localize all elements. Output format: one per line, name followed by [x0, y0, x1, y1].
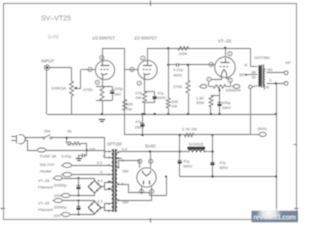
svg-text:0: 0	[121, 182, 123, 186]
svg-text:250V: 250V	[135, 124, 144, 129]
svg-text:6.3: 6.3	[98, 200, 103, 204]
svg-text:160V: 160V	[157, 95, 166, 100]
svg-text:100: 100	[89, 148, 95, 152]
svg-text:Filament: Filament	[38, 184, 54, 189]
svg-text:SCH515: SCH515	[189, 142, 204, 147]
svg-text:470Ω: 470Ω	[83, 87, 92, 92]
svg-text:0.22μ: 0.22μ	[173, 67, 183, 72]
svg-text:0: 0	[103, 154, 105, 158]
svg-text:SW: SW	[44, 129, 51, 134]
svg-text:1/2 6SN7GT: 1/2 6SN7GT	[134, 36, 157, 41]
svg-text:6.3: 6.3	[97, 161, 102, 165]
svg-text:100K: 100K	[178, 51, 187, 56]
svg-text:GOT950: GOT950	[254, 55, 270, 60]
svg-text:SV–VT25: SV–VT25	[41, 16, 71, 23]
svg-text:1/2 6SN7GT: 1/2 6SN7GT	[92, 36, 115, 41]
svg-text:(Rch): (Rch)	[258, 127, 268, 131]
svg-text:R: R	[245, 64, 248, 68]
svg-text:10000μ: 10000μ	[54, 183, 67, 188]
svg-text:VT–25: VT–25	[218, 38, 232, 43]
svg-text:1W: 1W	[171, 104, 177, 109]
svg-text:270K: 270K	[173, 84, 182, 89]
svg-text:0: 0	[100, 171, 102, 175]
svg-text:500V: 500V	[183, 163, 192, 168]
svg-text:160V: 160V	[222, 105, 231, 110]
svg-text:6.3: 6.3	[98, 179, 103, 183]
svg-text:20W: 20W	[196, 100, 204, 105]
svg-text:400V: 400V	[173, 73, 182, 78]
svg-text:0: 0	[100, 186, 102, 190]
svg-text:0: 0	[269, 78, 271, 82]
svg-text:500V: 500V	[219, 165, 228, 170]
svg-text:1W: 1W	[126, 106, 132, 111]
svg-text:SPT150: SPT150	[107, 142, 123, 147]
svg-text:0: 0	[100, 207, 102, 211]
svg-text:(Lch): (Lch)	[48, 34, 59, 39]
svg-text:16V: 16V	[114, 91, 121, 96]
svg-text:5U4G: 5U4G	[145, 143, 156, 148]
svg-text:10V: 10V	[54, 213, 61, 218]
svg-text:Y 8Ω: Y 8Ω	[264, 68, 273, 72]
svg-text:47μ: 47μ	[135, 119, 142, 124]
svg-text:2.7K 2W: 2.7K 2W	[182, 126, 197, 131]
svg-text:INPUT: INPUT	[41, 59, 54, 64]
svg-text:FUSE 3A: FUSE 3A	[40, 153, 57, 158]
svg-text:NL: NL	[67, 129, 73, 134]
svg-text:VT–25: VT–25	[38, 178, 49, 183]
svg-text:review33.com: review33.com	[253, 215, 295, 222]
svg-text:VT–25: VT–25	[38, 201, 49, 206]
svg-text:Filament: Filament	[38, 207, 54, 212]
svg-text:2W: 2W	[135, 95, 141, 100]
svg-text:5.0: 5.0	[122, 147, 127, 151]
svg-text:0: 0	[122, 159, 124, 163]
svg-text:10V: 10V	[54, 193, 61, 198]
svg-text:BR: BR	[239, 73, 245, 77]
svg-text:280: 280	[122, 170, 128, 174]
svg-text:Heater: Heater	[40, 168, 52, 173]
svg-text:100Ω2W: 100Ω2W	[225, 88, 241, 93]
svg-text:280: 280	[122, 200, 128, 204]
svg-text:6SL7GT: 6SL7GT	[40, 162, 55, 167]
svg-text:0.02μ: 0.02μ	[62, 153, 72, 158]
svg-text:10000μ: 10000μ	[54, 204, 67, 209]
svg-text:B: B	[266, 86, 269, 90]
svg-text:100KΩA: 100KΩA	[51, 86, 66, 91]
svg-text:BK: BK	[252, 71, 257, 75]
svg-text:5K: 5K	[252, 75, 257, 79]
svg-text:SP: SP	[285, 60, 291, 65]
